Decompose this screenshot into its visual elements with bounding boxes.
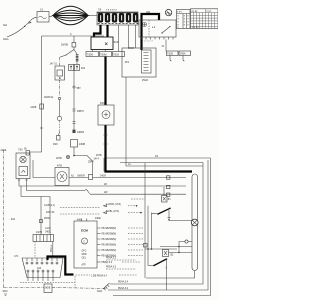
svg-text:14Y4: 14Y4 [94, 159, 100, 161]
svg-text:A-DB (4.1): A-DB (4.1) [44, 204, 55, 207]
svg-text:21DB S4: 21DB S4 [44, 97, 54, 99]
svg-text:a5R: a5R [146, 12, 151, 14]
svg-text:PB WE/SB(M): PB WE/SB(M) [102, 239, 117, 241]
svg-text:24/7B: 24/7B [36, 232, 42, 234]
svg-text:25GR: 25GR [142, 80, 148, 82]
svg-text:24GR: 24GR [100, 176, 106, 178]
svg-text:45BSY: 45BSY [77, 111, 85, 113]
svg-text:A26: A26 [37, 267, 42, 270]
svg-text:30A: 30A [3, 24, 8, 27]
svg-text:7/30M: 7/30M [100, 55, 106, 57]
svg-text:7/26: 7/26 [18, 150, 23, 152]
svg-text:PB WE/SB(M): PB WE/SB(M) [102, 250, 117, 252]
svg-text:30A1: 30A1 [97, 290, 103, 293]
svg-text:GM/GR: GM/GR [77, 176, 85, 178]
svg-text:1 .2 .1 2 .4 .7 .3: 1 .2 .1 2 .4 .7 .3 [140, 41, 153, 43]
svg-text:4WF S3: 4WF S3 [46, 212, 55, 214]
svg-text:n n n n n n: n n n n n n [106, 10, 118, 12]
svg-text:ECM: ECM [81, 229, 88, 233]
svg-text:GFC: GFC [82, 251, 87, 253]
svg-text:9/28: 9/28 [53, 144, 58, 146]
svg-text:POC a: POC a [51, 244, 53, 252]
svg-text:SRO: SRO [3, 291, 8, 293]
svg-text:7/30A: 7/30A [180, 53, 186, 56]
svg-text:nn an: nn an [192, 11, 198, 13]
svg-text:25GR: 25GR [113, 42, 119, 44]
svg-text:24MB: 24MB [79, 144, 85, 146]
svg-text:30Aa: 30Aa [3, 38, 9, 41]
svg-text:24DB4: 24DB4 [77, 132, 85, 134]
svg-text:PB WE/SB(M): PB WE/SB(M) [102, 228, 117, 230]
svg-text:1 DB PENA S.4: 1 DB PENA S.4 [91, 275, 108, 278]
svg-text:n nn: n nn [177, 12, 182, 14]
svg-text:PB WE/SB(M): PB WE/SB(M) [102, 245, 117, 247]
svg-text:PENA S.4: PENA S.4 [118, 287, 129, 290]
svg-text:PB WE/SB(M): PB WE/SB(M) [102, 234, 117, 236]
svg-text:14DB: 14DB [45, 288, 51, 290]
svg-text:5BY: 5BY [77, 88, 82, 90]
svg-text:24DB: 24DB [31, 107, 37, 109]
svg-text:BA/BL (17/3): BA/BL (17/3) [106, 210, 119, 213]
svg-text:→ 30A: → 30A [8, 218, 15, 221]
svg-text:24DC: 24DC [45, 232, 51, 234]
svg-text:ATP: ATP [82, 264, 87, 267]
svg-text:A-DC: A-DC [45, 227, 51, 230]
svg-text:PENA S.4: PENA S.4 [118, 281, 129, 284]
svg-text:4/7B: 4/7B [57, 166, 62, 168]
svg-text:2W/3B: 2W/3B [61, 45, 68, 47]
svg-text:29TB: 29TB [96, 155, 102, 157]
svg-text:OBD: OBD [82, 254, 87, 256]
svg-text:2R: 2R [104, 184, 107, 186]
svg-text:7/31N: 7/31N [113, 55, 119, 57]
svg-text:9A4: 9A4 [81, 67, 86, 70]
svg-text:24MC: 24MC [95, 218, 101, 220]
svg-text:CEL: CEL [82, 258, 87, 260]
svg-text:7/30N: 7/30N [87, 55, 93, 57]
svg-text:n n nn: n n nn [192, 27, 199, 29]
svg-text:29/69: 29/69 [44, 218, 50, 220]
svg-text:14Y S1: 14Y S1 [50, 64, 58, 66]
svg-text:6/46: 6/46 [100, 103, 105, 105]
svg-text:A-W/FD (17/3): A-W/FD (17/3) [106, 203, 121, 206]
svg-text:n nn: n nn [207, 11, 212, 13]
svg-text:15/1: 15/1 [125, 62, 130, 64]
svg-text:PENA S.2: PENA S.2 [106, 257, 117, 260]
svg-text:PENA S.2: PENA S.2 [106, 266, 117, 269]
svg-text:25R4: 25R4 [88, 162, 94, 164]
svg-text:7/30S: 7/30S [167, 54, 173, 56]
svg-text:22/50: 22/50 [56, 158, 62, 160]
svg-text:17/1: 17/1 [14, 256, 19, 258]
svg-text:PB(M) S.2: PB(M) S.2 [102, 262, 113, 264]
